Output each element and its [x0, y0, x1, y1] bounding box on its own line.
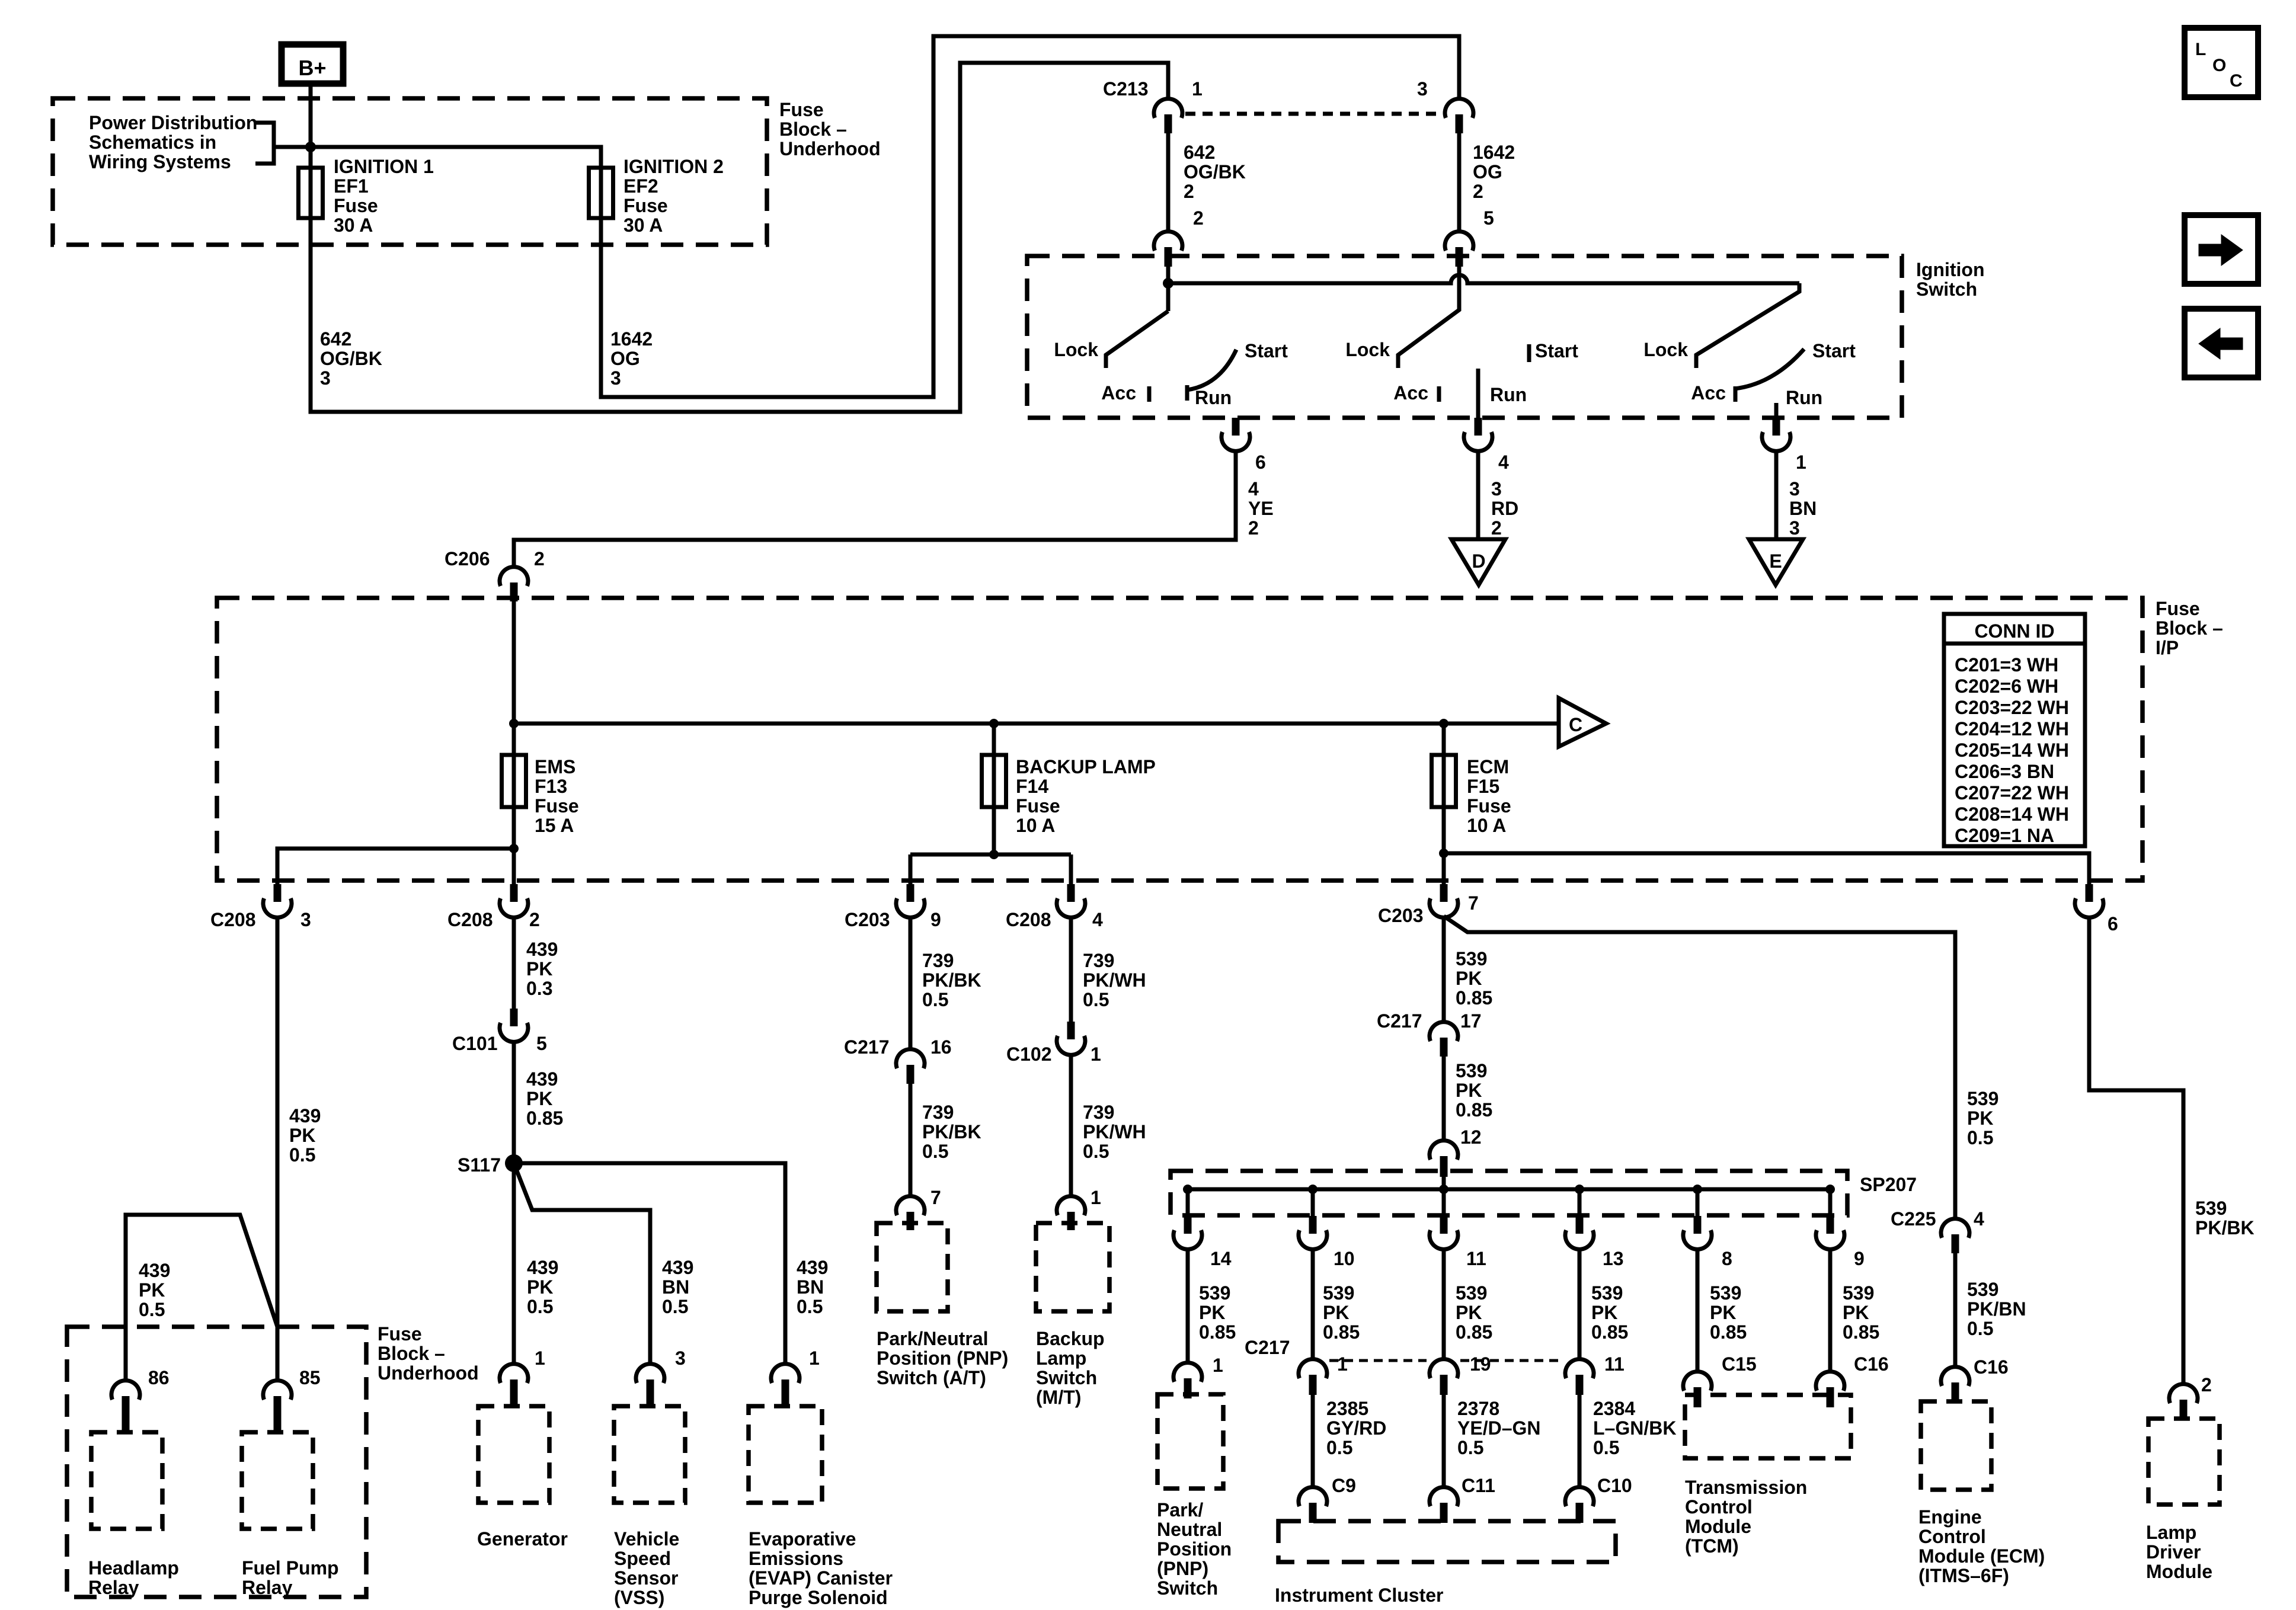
wire 2385 GY/RD 0.5 — [1311, 1395, 1315, 1487]
wire 439 PK 0.3 — [512, 917, 516, 1009]
switch 3 detent arc to Start — [1735, 349, 1804, 389]
svg-text:PK: PK — [1456, 1302, 1482, 1323]
svg-text:Switch: Switch — [1916, 279, 1977, 300]
junction node switch feed — [1163, 278, 1173, 289]
connector C217 pin 16 — [896, 1049, 925, 1068]
svg-text:(EVAP) Canister: (EVAP) Canister — [749, 1567, 893, 1589]
lamp driver pin 2 — [2169, 1384, 2198, 1403]
fuse EF1 IGNITION 1 30A — [309, 168, 313, 218]
svg-text:Module (ECM): Module (ECM) — [1918, 1545, 2045, 1567]
svg-text:539: 539 — [1456, 948, 1487, 969]
wire branch to Headlamp Relay — [126, 1215, 277, 1381]
svg-text:Fuse: Fuse — [378, 1323, 422, 1345]
svg-text:OG/BK: OG/BK — [320, 348, 382, 369]
svg-text:Park/: Park/ — [1157, 1499, 1203, 1521]
svg-text:Acc: Acc — [1393, 382, 1428, 404]
svg-text:PK: PK — [1591, 1302, 1617, 1323]
svg-text:739: 739 — [922, 950, 954, 971]
svg-text:2384: 2384 — [1593, 1398, 1635, 1419]
svg-text:1: 1 — [1192, 78, 1203, 100]
svg-text:B+: B+ — [298, 56, 326, 80]
svg-text:RD: RD — [1491, 498, 1518, 519]
svg-text:C202=6 WH: C202=6 WH — [1955, 676, 2058, 697]
svg-text:0.5: 0.5 — [289, 1144, 315, 1166]
splice pack pin 12 — [1430, 1141, 1458, 1160]
svg-text:Start: Start — [1535, 340, 1578, 361]
wire 539 PK 0.5 to lamp driver — [2089, 917, 2183, 1384]
svg-text:(ITMS–6F): (ITMS–6F) — [1918, 1565, 2009, 1586]
svg-text:PK/BK: PK/BK — [922, 969, 981, 991]
svg-text:S117: S117 — [458, 1154, 501, 1176]
svg-text:YE/D–GN: YE/D–GN — [1457, 1417, 1540, 1439]
bus junction at F13 — [509, 719, 519, 728]
svg-text:PK: PK — [289, 1125, 315, 1146]
svg-text:OG: OG — [1473, 161, 1502, 183]
connector C225 pin 4 — [1941, 1219, 1969, 1238]
svg-text:Wiring Systems: Wiring Systems — [89, 151, 231, 172]
connector C208 pin 2 — [512, 849, 516, 884]
svg-text:I/P: I/P — [2156, 637, 2179, 658]
pnp switch pin 1 — [1173, 1363, 1202, 1382]
svg-text:15 A: 15 A — [535, 815, 574, 836]
svg-text:3: 3 — [675, 1347, 686, 1369]
wire 539 PK/BN 0.5 — [1953, 1253, 1958, 1367]
splice S117 — [505, 1154, 523, 1172]
svg-text:3: 3 — [1789, 517, 1800, 539]
svg-text:0.5: 0.5 — [139, 1299, 165, 1320]
connector C101 pin 5 — [510, 1009, 518, 1026]
svg-text:Backup: Backup — [1036, 1328, 1105, 1349]
svg-text:1: 1 — [1796, 452, 1806, 473]
SP207 output pin 11 — [1442, 1189, 1446, 1216]
svg-text:EF2: EF2 — [623, 175, 658, 197]
svg-text:C205=14 WH: C205=14 WH — [1955, 740, 2069, 761]
svg-text:1: 1 — [1213, 1355, 1223, 1376]
connector C217 pin 1 — [1299, 1359, 1327, 1378]
svg-text:IGNITION 2: IGNITION 2 — [623, 156, 724, 177]
svg-text:3: 3 — [300, 909, 311, 930]
svg-text:439: 439 — [526, 1068, 558, 1090]
svg-text:L–GN/BK: L–GN/BK — [1593, 1417, 1676, 1439]
svg-text:PK: PK — [1323, 1302, 1349, 1323]
svg-text:439: 439 — [526, 939, 558, 960]
svg-text:2: 2 — [2201, 1374, 2212, 1395]
wire 739 PK/WH lower — [1069, 1055, 1073, 1196]
LOC page symbol — [2185, 28, 2258, 97]
switch 2 Acc contact — [1437, 386, 1441, 402]
svg-text:10 A: 10 A — [1467, 815, 1506, 836]
wire 1642 OG 2 to ignition switch — [1457, 133, 1462, 232]
svg-text:439: 439 — [289, 1105, 321, 1126]
svg-text:Underhood: Underhood — [779, 138, 881, 159]
svg-text:Fuse: Fuse — [535, 795, 579, 817]
svg-text:YE: YE — [1248, 498, 1274, 519]
wire feed across switches with hop over pin5 wire — [1168, 275, 1799, 283]
svg-text:Purge Solenoid: Purge Solenoid — [749, 1587, 888, 1608]
svg-text:0.5: 0.5 — [797, 1296, 823, 1317]
Engine Control Module box — [1921, 1401, 1991, 1490]
svg-text:17: 17 — [1460, 1010, 1482, 1032]
junction below F13 — [509, 844, 519, 853]
bus junction at F15 — [1439, 719, 1448, 728]
wire S117 to EVAP solenoid — [514, 1163, 785, 1364]
wire branch to C208 pin 3 — [277, 849, 514, 884]
svg-text:Module: Module — [2146, 1561, 2212, 1582]
wire 539 PK 0.85 upper — [1442, 917, 1446, 1022]
svg-text:539: 539 — [1967, 1088, 1998, 1109]
wire 739 PK/WH upper — [1069, 917, 1073, 1022]
splice pack SP207 box — [1171, 1171, 1847, 1215]
svg-text:30 A: 30 A — [623, 215, 663, 236]
svg-text:Instrument Cluster: Instrument Cluster — [1275, 1585, 1443, 1606]
connector C206 pin 2 — [500, 567, 528, 586]
wire 4 YE 2 from pin 6 to C206 — [514, 451, 1236, 567]
ignition switch pin 5 — [1445, 232, 1473, 251]
svg-text:439: 439 — [797, 1257, 828, 1278]
wire pin10 down — [1311, 1249, 1315, 1359]
svg-text:1: 1 — [1091, 1044, 1101, 1065]
evap pin 1 — [771, 1364, 800, 1383]
svg-text:0.5: 0.5 — [1083, 1141, 1109, 1162]
svg-text:539: 539 — [2195, 1198, 2227, 1219]
svg-text:C16: C16 — [1974, 1356, 2009, 1378]
svg-text:0.85: 0.85 — [1456, 1099, 1492, 1121]
EVAP purge solenoid box — [749, 1406, 822, 1503]
svg-text:539: 539 — [1967, 1279, 1998, 1300]
svg-text:IGNITION 1: IGNITION 1 — [334, 156, 434, 177]
wire 3 RD 2 from pin 4 to D — [1476, 451, 1480, 539]
svg-text:C209=1 NA: C209=1 NA — [1955, 825, 2054, 846]
svg-text:Ignition: Ignition — [1916, 259, 1985, 280]
svg-text:Switch: Switch — [1036, 1367, 1097, 1388]
connector pin 6 right — [2086, 884, 2093, 902]
off-page triangle D — [1451, 539, 1505, 585]
svg-text:539: 539 — [1323, 1282, 1354, 1304]
svg-text:PK: PK — [1967, 1108, 1993, 1129]
wire 739 PK/BK lower — [909, 1084, 913, 1196]
svg-text:Block –: Block – — [378, 1343, 445, 1364]
wire branches to C203-9 and C208-4 — [910, 853, 1071, 857]
SP207 junction 5 — [1693, 1185, 1702, 1194]
svg-text:Underhood: Underhood — [378, 1362, 479, 1384]
svg-text:EMS: EMS — [535, 756, 575, 777]
svg-text:E: E — [1769, 550, 1782, 572]
Fuse Block - I/P box — [217, 598, 2142, 881]
SP207 junction 6 — [1825, 1185, 1835, 1194]
svg-text:F15: F15 — [1467, 776, 1499, 797]
svg-text:Relay: Relay — [88, 1577, 139, 1598]
svg-text:2378: 2378 — [1457, 1398, 1499, 1419]
svg-text:1: 1 — [535, 1347, 545, 1369]
fuse EF2 IGNITION 2 30A — [599, 168, 603, 218]
power bus in I/P fuse block — [514, 722, 1559, 726]
wire 642 OG/BK from EF1 to C213 pin 1 — [311, 63, 1168, 412]
svg-text:OG: OG — [610, 348, 640, 369]
svg-text:PK: PK — [1843, 1302, 1869, 1323]
wire 1642 OG from EF2 to C213 pin 3 — [601, 36, 1459, 397]
svg-text:0.5: 0.5 — [922, 1141, 948, 1162]
switch 1 Acc contact — [1147, 386, 1152, 402]
svg-text:1: 1 — [1337, 1353, 1348, 1375]
svg-text:C15: C15 — [1722, 1353, 1757, 1375]
svg-text:Fuse: Fuse — [1467, 795, 1511, 817]
svg-text:4: 4 — [1974, 1208, 1984, 1230]
svg-text:PK/BK: PK/BK — [2195, 1217, 2255, 1238]
svg-text:PK/WH: PK/WH — [1083, 1121, 1146, 1142]
Fuse Block - Underhood box (bottom) — [67, 1327, 366, 1597]
svg-text:0.5: 0.5 — [922, 989, 948, 1010]
svg-text:7: 7 — [930, 1187, 941, 1208]
svg-text:30 A: 30 A — [334, 215, 373, 236]
svg-text:Position (PNP): Position (PNP) — [877, 1347, 1008, 1369]
svg-text:PK/BK: PK/BK — [922, 1121, 981, 1142]
svg-text:C207=22 WH: C207=22 WH — [1955, 782, 2069, 804]
connector C203 pin 7 — [1442, 853, 1446, 884]
SP207 output pin 13 — [1578, 1189, 1582, 1216]
svg-text:0.5: 0.5 — [662, 1296, 688, 1317]
svg-text:(TCM): (TCM) — [1685, 1535, 1739, 1557]
svg-text:1642: 1642 — [1473, 142, 1515, 163]
svg-text:539: 539 — [1710, 1282, 1741, 1304]
svg-text:EF1: EF1 — [334, 175, 369, 197]
svg-text:C203: C203 — [845, 909, 890, 930]
svg-text:539: 539 — [1199, 1282, 1230, 1304]
svg-text:Fuse: Fuse — [1016, 795, 1060, 817]
wire pin11 down — [1442, 1249, 1446, 1359]
svg-text:539: 539 — [1456, 1282, 1487, 1304]
svg-text:PK: PK — [1710, 1302, 1736, 1323]
svg-text:GY/RD: GY/RD — [1326, 1417, 1386, 1439]
svg-text:2: 2 — [1184, 181, 1194, 202]
svg-text:F14: F14 — [1016, 776, 1048, 797]
wire 539 PK 0.85 lower — [1442, 1057, 1446, 1141]
svg-text:13: 13 — [1603, 1248, 1624, 1269]
svg-text:C208: C208 — [210, 909, 256, 930]
wire branch to fuse EF2 — [311, 147, 601, 168]
svg-text:Run: Run — [1490, 384, 1527, 405]
tcm connector C16 — [1816, 1372, 1844, 1391]
svg-text:C203: C203 — [1378, 905, 1424, 926]
svg-text:C206=3 BN: C206=3 BN — [1955, 761, 2054, 782]
arrow next page symbol — [2185, 215, 2258, 284]
ignition switch output pin 4 — [1475, 418, 1482, 436]
svg-text:11: 11 — [1604, 1353, 1625, 1375]
Ignition Switch box — [1027, 256, 1902, 418]
wire 439 PK 0.5 from C208-3 to relays — [276, 917, 280, 1381]
svg-text:8: 8 — [1722, 1248, 1732, 1269]
svg-text:Schematics in: Schematics in — [89, 132, 216, 153]
wire branch to pin 6 right — [1444, 853, 2089, 884]
svg-text:3: 3 — [1491, 478, 1502, 500]
svg-text:Acc: Acc — [1101, 382, 1136, 404]
cluster connector C9 — [1299, 1487, 1327, 1506]
svg-text:5: 5 — [536, 1033, 547, 1054]
svg-text:0.3: 0.3 — [526, 978, 552, 999]
SP207 output pin 10 — [1311, 1189, 1315, 1216]
svg-text:0.85: 0.85 — [526, 1108, 563, 1129]
svg-text:C102: C102 — [1006, 1044, 1052, 1065]
junction below F15 — [1439, 849, 1448, 858]
svg-text:CONN ID: CONN ID — [1974, 620, 2054, 642]
svg-text:Control: Control — [1918, 1526, 1986, 1547]
svg-text:0.5: 0.5 — [527, 1296, 553, 1317]
svg-text:2: 2 — [1193, 207, 1204, 229]
svg-text:C204=12 WH: C204=12 WH — [1955, 718, 2069, 740]
svg-text:F13: F13 — [535, 776, 567, 797]
svg-text:3: 3 — [1417, 78, 1428, 100]
wire 739 PK/BK upper — [909, 917, 913, 1049]
svg-text:C101: C101 — [452, 1033, 498, 1054]
svg-text:14: 14 — [1210, 1248, 1232, 1269]
wire 439 PK 0.85 — [512, 1042, 516, 1163]
fuse F15 ECM 10A — [1442, 724, 1446, 853]
svg-text:Relay: Relay — [242, 1577, 293, 1598]
switch 2 Start contact — [1527, 344, 1531, 362]
svg-text:86: 86 — [148, 1367, 170, 1388]
svg-text:0.85: 0.85 — [1591, 1321, 1628, 1343]
svg-text:BN: BN — [1789, 498, 1817, 519]
svg-text:Lock: Lock — [1643, 339, 1688, 360]
svg-text:4: 4 — [1498, 452, 1509, 473]
svg-text:C201=3 WH: C201=3 WH — [1955, 654, 2058, 676]
svg-text:Lamp: Lamp — [1036, 1347, 1086, 1369]
svg-text:C10: C10 — [1597, 1475, 1632, 1496]
svg-text:(VSS): (VSS) — [614, 1587, 664, 1608]
connector C102 pin 1 — [1067, 1022, 1075, 1039]
svg-text:Driver: Driver — [2146, 1541, 2201, 1563]
svg-text:PK: PK — [139, 1279, 165, 1301]
wire C206 to bus — [512, 600, 516, 724]
svg-text:439: 439 — [139, 1260, 170, 1281]
C213 pin 3 — [1445, 99, 1473, 118]
Fuel Pump Relay box — [242, 1432, 313, 1529]
ignition switch pin 2 — [1154, 232, 1182, 251]
svg-text:C213: C213 — [1103, 78, 1149, 100]
ignition switch output pin 6 — [1232, 418, 1240, 436]
svg-text:5: 5 — [1483, 207, 1494, 229]
svg-text:1: 1 — [809, 1347, 820, 1369]
svg-text:O: O — [2212, 56, 2226, 75]
junction below F14 — [989, 850, 999, 859]
connector C203 pin 9 — [907, 884, 914, 902]
svg-text:642: 642 — [1184, 142, 1215, 163]
svg-text:2: 2 — [534, 548, 545, 569]
switch 1 detent arc Run to Start — [1187, 350, 1236, 390]
connector C217 pin 17 — [1430, 1022, 1458, 1041]
svg-text:Neutral: Neutral — [1157, 1519, 1222, 1540]
wire 2378 YE/D-GN 0.5 — [1442, 1395, 1446, 1487]
svg-text:Position: Position — [1157, 1538, 1232, 1560]
svg-text:C203=22 WH: C203=22 WH — [1955, 697, 2069, 718]
svg-text:Engine: Engine — [1918, 1506, 1982, 1528]
svg-text:642: 642 — [320, 328, 351, 350]
SP207 junction 4 — [1575, 1185, 1584, 1194]
svg-text:Fuse: Fuse — [334, 195, 378, 216]
svg-text:BN: BN — [662, 1276, 689, 1298]
svg-text:Block –: Block – — [779, 119, 847, 140]
svg-text:Switch: Switch — [1157, 1577, 1218, 1599]
svg-text:ECM: ECM — [1467, 756, 1509, 777]
svg-text:739: 739 — [1083, 1102, 1114, 1123]
ignition switch output pin 1 — [1773, 418, 1780, 436]
svg-text:2: 2 — [1491, 517, 1502, 539]
fuse F13 EMS 15A — [512, 724, 516, 849]
SP207 junction 2 — [1308, 1185, 1318, 1194]
SP207 junction 3 — [1439, 1185, 1448, 1194]
svg-text:10: 10 — [1334, 1248, 1355, 1269]
svg-text:C206: C206 — [445, 548, 490, 569]
bracket from note to B+ wire — [255, 123, 274, 164]
svg-text:PK: PK — [1456, 1080, 1482, 1101]
svg-text:539: 539 — [1843, 1282, 1874, 1304]
wire pin9 down — [1828, 1249, 1833, 1372]
B+ battery feed terminal — [282, 44, 343, 84]
svg-text:85: 85 — [299, 1367, 321, 1388]
svg-text:739: 739 — [1083, 950, 1114, 971]
svg-text:Emissions: Emissions — [749, 1548, 843, 1569]
CONN ID table — [1944, 614, 2085, 846]
wire 2384 L-GN/BK 0.5 — [1578, 1395, 1582, 1487]
junction node at B+ wire — [305, 142, 316, 152]
svg-text:Fuse: Fuse — [2156, 598, 2200, 619]
svg-text:2: 2 — [1248, 517, 1259, 539]
wire pin2 into switch 1 — [1166, 267, 1171, 311]
svg-text:3: 3 — [320, 367, 331, 389]
svg-text:16: 16 — [930, 1036, 952, 1058]
svg-text:3: 3 — [1789, 478, 1800, 500]
svg-text:6: 6 — [2108, 913, 2118, 934]
svg-text:PK: PK — [526, 1088, 552, 1109]
svg-text:C16: C16 — [1854, 1353, 1889, 1375]
svg-text:C: C — [2230, 71, 2243, 91]
svg-text:C208=14 WH: C208=14 WH — [1955, 804, 2069, 825]
svg-text:10 A: 10 A — [1016, 815, 1055, 836]
svg-text:739: 739 — [922, 1102, 954, 1123]
svg-text:11: 11 — [1466, 1248, 1486, 1269]
svg-text:0.5: 0.5 — [1083, 989, 1109, 1010]
svg-text:OG/BK: OG/BK — [1184, 161, 1246, 183]
svg-text:(M/T): (M/T) — [1036, 1387, 1081, 1408]
svg-text:Sensor: Sensor — [614, 1567, 678, 1589]
svg-text:Start: Start — [1245, 340, 1288, 361]
svg-text:539: 539 — [1591, 1282, 1623, 1304]
SP207 bus — [1188, 1188, 1830, 1192]
svg-text:Evaporative: Evaporative — [749, 1528, 856, 1550]
svg-text:Start: Start — [1812, 340, 1856, 361]
switch 2 Run output wire — [1476, 369, 1480, 418]
svg-text:1642: 1642 — [610, 328, 653, 350]
wire B+ down to fuse EF1 — [309, 84, 313, 168]
svg-text:BN: BN — [797, 1276, 824, 1298]
pnp switch pin 7 — [896, 1196, 925, 1215]
C213 connector dashed link — [1185, 112, 1444, 116]
svg-text:539: 539 — [1456, 1060, 1487, 1081]
fuel pump relay pin 85 — [263, 1381, 292, 1400]
svg-text:C217: C217 — [844, 1036, 890, 1058]
svg-text:Acc: Acc — [1691, 382, 1726, 404]
svg-text:0.85: 0.85 — [1199, 1321, 1236, 1343]
wire pin14 down — [1186, 1249, 1190, 1363]
svg-text:Module: Module — [1685, 1516, 1751, 1537]
cluster connector C11 — [1430, 1487, 1458, 1506]
svg-text:Headlamp: Headlamp — [88, 1557, 179, 1579]
wire S117 to VSS — [514, 1163, 650, 1364]
svg-text:Lock: Lock — [1345, 339, 1390, 360]
svg-text:0.85: 0.85 — [1456, 1321, 1492, 1343]
svg-text:PK/WH: PK/WH — [1083, 969, 1146, 991]
svg-text:2: 2 — [529, 909, 540, 930]
svg-text:0.5: 0.5 — [1593, 1437, 1619, 1458]
